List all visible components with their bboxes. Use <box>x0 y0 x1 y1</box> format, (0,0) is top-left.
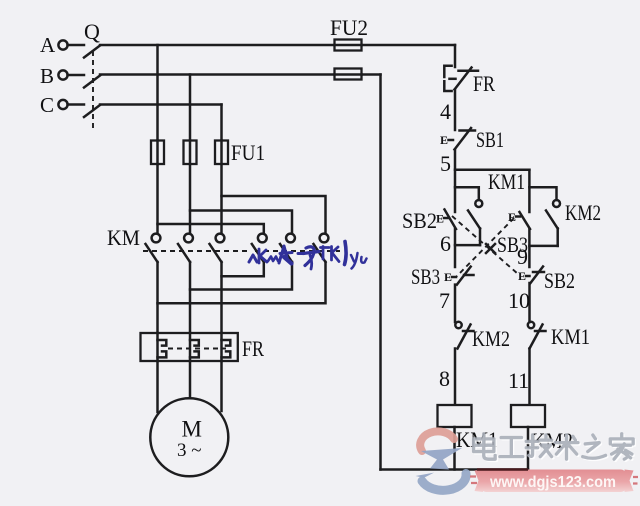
svg-text:A: A <box>40 33 56 57</box>
switch Q pole A <box>84 46 100 58</box>
wire crossover top inner (A to R1) <box>158 224 264 234</box>
wire FR to motor 1 <box>156 361 159 412</box>
fuse FU2 lower (phase B) <box>335 69 362 80</box>
svg-text:www.dgjs123.com: www.dgjs123.com <box>489 474 616 491</box>
wire node 9 rail <box>529 245 557 248</box>
interlock KM2 NC blade <box>458 325 471 349</box>
contactor KM reverse contact R3 <box>320 234 329 243</box>
svg-text:FR: FR <box>473 71 495 96</box>
interlock KM1 NC bar <box>535 330 546 333</box>
reverse linkage dashes <box>255 250 340 252</box>
interlock KM1 NC circle <box>528 322 534 328</box>
switch Q pole B <box>84 76 100 88</box>
contactor KM main contact 2 <box>184 234 193 243</box>
svg-text:SB2: SB2 <box>402 208 437 233</box>
pushbutton SB1 bar <box>460 129 476 132</box>
interlock KM2 NC circle <box>455 322 461 328</box>
wire FR to motor 3 <box>220 361 223 411</box>
wire node 11 <box>528 349 531 406</box>
watermark text 之 <box>583 435 607 460</box>
linkage cross mark <box>486 244 495 253</box>
wire FR to motor 2 <box>189 361 192 399</box>
FR heater element 3 <box>220 333 223 361</box>
fuse FU1 wire inside C <box>220 141 223 163</box>
wire node 10 <box>528 283 531 322</box>
pushbutton SB2 NC blade <box>531 267 544 284</box>
FR heater linkage dashes <box>168 348 226 350</box>
wire out contact 2 <box>189 262 192 333</box>
fuse FU2 upper (phase A) <box>335 40 362 51</box>
linkage SB2 dashed diagonal <box>452 216 518 274</box>
svg-text:KM2: KM2 <box>472 326 510 351</box>
thermal contact FR (NC) hook <box>444 66 451 77</box>
aux contact KM2 blade <box>546 211 558 229</box>
svg-text:Q: Q <box>84 19 100 44</box>
svg-text:6: 6 <box>440 231 451 256</box>
aux contact KM1 bottom <box>479 229 482 246</box>
contactor KM main contact 3 <box>216 234 225 243</box>
KM linkage dashes <box>143 250 247 252</box>
pushbutton SB3 NO blade <box>520 212 531 229</box>
wire phase B horizontal <box>100 73 381 76</box>
svg-text:KM: KM <box>107 225 140 250</box>
wire out contact 1 <box>156 262 159 333</box>
interlock KM2 NC bar <box>463 330 474 333</box>
FR heater element 1 <box>156 333 159 361</box>
wire bottom rail <box>381 468 529 471</box>
svg-text:KM1: KM1 <box>551 324 590 349</box>
svg-text:7: 7 <box>439 288 450 313</box>
aux contact KM1 blade <box>468 211 480 229</box>
svg-text:SB3: SB3 <box>411 264 440 289</box>
svg-text:10: 10 <box>508 288 530 313</box>
contactor KM reverse contact R2 <box>286 234 295 243</box>
wire node 6 drop <box>454 229 457 267</box>
wire crossover bottom outer (R3 to A) <box>158 262 326 303</box>
wire crossover bottom inner (R1 to C) <box>222 262 264 276</box>
svg-text:4: 4 <box>440 99 451 124</box>
wire bottom rail over watermark <box>477 468 528 470</box>
fuse FU1 phase B <box>184 141 197 165</box>
svg-text:KM2: KM2 <box>565 200 601 225</box>
wire node 7 <box>454 285 457 322</box>
fuse FU1 wire inside A <box>156 141 159 165</box>
wire right branch top <box>528 170 531 212</box>
watermark text 电 <box>474 434 497 461</box>
linkage SB3 dashed diagonal <box>456 218 514 277</box>
svg-text:FU2: FU2 <box>330 15 368 40</box>
wire C stub <box>68 103 84 106</box>
switch Q pole C <box>84 105 100 117</box>
thermal relay FR box <box>141 333 238 361</box>
wire node 9 drop <box>528 229 531 267</box>
pushbutton SB1 blade <box>455 128 472 150</box>
svg-text:KM1: KM1 <box>488 169 525 194</box>
watermark logo red arc <box>420 431 454 451</box>
watermark text 术 <box>555 435 579 461</box>
svg-text:M: M <box>182 417 202 442</box>
svg-text:SB2: SB2 <box>544 268 575 293</box>
svg-text:5: 5 <box>440 151 451 176</box>
wire node 5 drop <box>454 150 457 213</box>
wire crossover bottom middle (R2 to B) <box>190 262 292 290</box>
fuse FU1 phase C <box>215 141 228 165</box>
wire phase A drop <box>156 45 159 234</box>
aux contact KM2 circle <box>553 200 560 207</box>
pushbutton SB3 NC bar <box>464 274 474 277</box>
svg-text:9: 9 <box>517 244 528 269</box>
svg-text:8: 8 <box>439 366 450 391</box>
thermal contact FR bar <box>459 70 479 73</box>
watermark logo blue bowtie <box>421 448 462 470</box>
pushbutton SB2 NO blade <box>445 210 457 230</box>
aux contact KM2 bottom <box>556 229 559 246</box>
watermark text 工 <box>500 438 524 458</box>
wire phase C horizontal <box>100 103 222 106</box>
switch Q linkage <box>92 51 94 128</box>
pushbutton SB3 NC blade <box>457 267 471 285</box>
wire phase C drop <box>220 105 223 234</box>
wire crossover top middle (B to R2) <box>190 211 292 234</box>
coil KM2 <box>511 405 545 427</box>
wire control right drop (from phase A corner) <box>454 45 457 67</box>
watermark text 技 <box>526 435 553 458</box>
contactor KM main contact 1 <box>152 234 161 243</box>
blue ink scrawl <box>249 255 257 262</box>
fuse FU1 phase A <box>151 141 164 165</box>
svg-text:B: B <box>40 64 54 88</box>
wire coil KM1 bottom <box>453 427 456 470</box>
watermark logo blue arc <box>422 474 466 491</box>
wire crossover top outer (C to R3) <box>222 196 326 234</box>
contactor KM reverse contact R1 <box>258 234 267 243</box>
fuse FU1 wire inside B <box>189 141 192 165</box>
svg-text:C: C <box>40 93 54 117</box>
svg-text:11: 11 <box>508 368 529 393</box>
wire node 6 rail <box>455 244 480 247</box>
svg-text:FU1: FU1 <box>231 140 265 165</box>
FR heater element 2 <box>189 333 192 361</box>
wire node 4 <box>454 90 457 131</box>
coil KM1 <box>438 405 472 427</box>
wire control left drop (from FU2 lower) <box>379 75 382 470</box>
wire node 8 <box>454 349 457 406</box>
watermark text 家 <box>610 434 634 461</box>
wire A stub <box>68 44 84 47</box>
aux contact KM2 branch top <box>529 187 556 200</box>
pushbutton SB2 NC bar <box>533 271 544 274</box>
svg-text:SB1: SB1 <box>476 127 504 152</box>
wire phase A horizontal <box>100 44 455 47</box>
wire node 5 rail <box>455 169 529 172</box>
svg-text:3 ~: 3 ~ <box>177 440 202 461</box>
wire out contact 3 <box>220 262 223 333</box>
aux contact KM1 circle <box>475 200 482 207</box>
wire B stub <box>68 74 84 77</box>
aux contact KM1 branch top <box>455 187 479 200</box>
motor M <box>150 398 228 476</box>
thermal contact FR blade <box>455 68 472 90</box>
svg-text:E: E <box>440 133 448 147</box>
interlock KM1 NC blade <box>530 325 543 349</box>
wire coil KM2 bottom <box>527 427 530 470</box>
svg-text:FR: FR <box>242 336 264 361</box>
wire phase B drop <box>189 75 192 234</box>
